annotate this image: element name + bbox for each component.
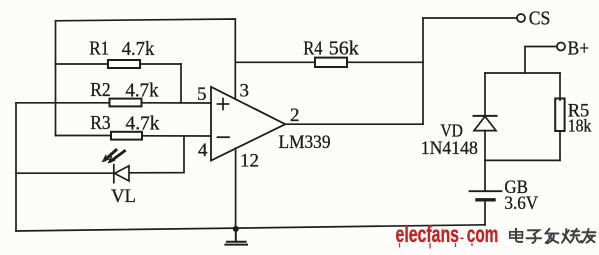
wire R5 bottom to diode node bbox=[485, 159, 560, 161]
resistor R5 bbox=[555, 73, 564, 160]
svg-text:4: 4 bbox=[198, 140, 208, 161]
svg-text:elecfans: elecfans bbox=[396, 221, 460, 247]
svg-text:2: 2 bbox=[290, 105, 300, 126]
diode VD 1N4148 bbox=[474, 73, 497, 191]
terminal B+ bbox=[557, 43, 565, 51]
wire supply bus y=73 bbox=[485, 72, 560, 74]
svg-text:VL: VL bbox=[111, 186, 136, 207]
svg-text:R1: R1 bbox=[89, 38, 109, 60]
ground bbox=[225, 229, 247, 245]
wire bottom bus bbox=[16, 225, 485, 231]
minus sign bbox=[218, 136, 230, 138]
wire B+ row bbox=[525, 47, 557, 74]
svg-text:56k: 56k bbox=[329, 38, 359, 60]
wire R1 right to R2 row bbox=[180, 64, 182, 103]
watermark chinese 电子发烧友 bbox=[510, 229, 596, 244]
wire CS row bbox=[423, 17, 517, 19]
svg-text:3.6V: 3.6V bbox=[504, 193, 538, 214]
svg-text:1N4148: 1N4148 bbox=[421, 138, 478, 159]
resistor R4 bbox=[235, 58, 423, 67]
LED VL bbox=[16, 165, 129, 183]
op-amp U1 LM339 bbox=[211, 87, 285, 161]
resistor R1 bbox=[56, 60, 182, 68]
LED light arrows bbox=[105, 150, 125, 161]
wire pin2 output row bbox=[285, 123, 423, 125]
char 子 bbox=[527, 230, 542, 243]
wire right vertical (output node) bbox=[422, 18, 424, 124]
battery GB bbox=[470, 191, 502, 225]
char 烧 bbox=[562, 229, 581, 243]
svg-text:4.7k: 4.7k bbox=[126, 79, 159, 101]
svg-text:5: 5 bbox=[197, 84, 207, 105]
svg-text:CS: CS bbox=[529, 7, 551, 29]
svg-text:3: 3 bbox=[240, 81, 250, 102]
resistor R3 bbox=[56, 132, 212, 140]
svg-text:R3: R3 bbox=[90, 112, 111, 134]
svg-text:R4: R4 bbox=[303, 38, 322, 60]
svg-text:4.7k: 4.7k bbox=[122, 38, 155, 60]
plus sign bbox=[218, 99, 229, 110]
wire R3 row down to LED row bbox=[130, 136, 185, 173]
svg-text:com: com bbox=[467, 221, 499, 247]
resistor R2 bbox=[16, 99, 211, 107]
wire top bus bbox=[56, 19, 236, 136]
wire outer left vertical bbox=[15, 103, 17, 231]
svg-text:18k: 18k bbox=[568, 115, 592, 135]
watermark elecfans.com bbox=[396, 221, 499, 249]
svg-text:4.7k: 4.7k bbox=[126, 112, 160, 134]
terminal CS bbox=[517, 14, 525, 22]
svg-text:LM339: LM339 bbox=[279, 132, 331, 153]
pin 12 ground wire bbox=[235, 148, 237, 229]
char 友 bbox=[582, 229, 595, 243]
svg-text:B+: B+ bbox=[568, 38, 590, 60]
char 电 bbox=[510, 229, 523, 242]
char 发 bbox=[545, 229, 558, 244]
svg-text:12: 12 bbox=[240, 151, 259, 172]
junction dot (pin12 to ground bus) bbox=[233, 226, 239, 232]
svg-text:R2: R2 bbox=[90, 79, 111, 101]
